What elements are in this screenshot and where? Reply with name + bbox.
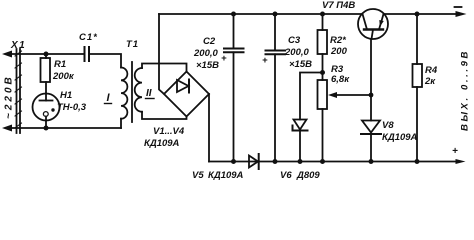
wire: bottom input line with left arrow <box>2 125 121 132</box>
neon lamp H1 <box>33 94 60 121</box>
svg-text:×15В: ×15В <box>289 59 312 70</box>
R3 wiper arrow <box>328 92 371 98</box>
svg-text:200: 200 <box>330 46 348 57</box>
svg-text:200,0: 200,0 <box>193 48 218 59</box>
resistor R1 <box>41 58 51 82</box>
node R4 top <box>415 12 420 17</box>
svg-text:200,0: 200,0 <box>284 47 309 58</box>
svg-text:2к: 2к <box>424 76 436 87</box>
label C2 plus <box>193 36 227 71</box>
wire secondary top to bridge top corner <box>142 64 187 72</box>
wire junction to zener V6 <box>300 73 323 120</box>
diode symbol inside bridge <box>177 80 189 93</box>
diode V8 <box>361 121 381 135</box>
svg-text:+: + <box>452 146 458 157</box>
svg-text:+: + <box>221 53 227 64</box>
transformer T1 primary winding I <box>121 68 127 119</box>
connector X1 plug bar <box>15 49 22 133</box>
node R4 bottom <box>415 159 420 164</box>
wire bridge right corner down to bottom rail <box>208 94 210 162</box>
wire R1 top lead <box>45 54 47 58</box>
svg-text:6,8к: 6,8к <box>331 74 350 85</box>
label V8 KD109A <box>382 120 418 143</box>
svg-text:С2: С2 <box>203 36 216 47</box>
label V1...V4 <box>144 126 185 149</box>
wire bottom rail <box>209 161 457 163</box>
wire V8 to bottom rail <box>370 134 372 162</box>
svg-text:R1: R1 <box>54 59 66 70</box>
wire R2 to R3 <box>322 54 324 80</box>
svg-text:V7 П4В: V7 П4В <box>322 0 355 11</box>
label R1 200k <box>52 59 75 82</box>
svg-text:V8: V8 <box>382 120 394 131</box>
svg-text:I: I <box>107 92 111 104</box>
wire top rail right segment <box>384 13 458 15</box>
output arrow minus <box>456 11 467 17</box>
svg-text:V1...V4: V1...V4 <box>153 126 185 137</box>
label R2* 200 <box>330 35 348 57</box>
output arrow plus <box>456 159 466 164</box>
node C3 top <box>273 12 278 17</box>
label C3 plus <box>262 35 312 70</box>
svg-text:КД109А: КД109А <box>382 132 418 143</box>
capacitor C2 <box>224 14 244 162</box>
label V6 D809 <box>280 170 320 181</box>
svg-text:КД109А: КД109А <box>144 138 180 149</box>
svg-text:С1*: С1* <box>79 32 98 43</box>
wire C1 to transformer primary <box>89 54 121 68</box>
svg-text:V6: V6 <box>280 170 292 180</box>
transistor V7 <box>358 9 388 39</box>
capacitor C1 <box>85 47 90 61</box>
node R3 bottom <box>320 159 325 164</box>
svg-text:II: II <box>146 88 152 99</box>
node C2 top <box>231 12 236 17</box>
wire top rail left segment <box>159 13 363 15</box>
label minus <box>455 6 462 8</box>
svg-text:Т1: Т1 <box>126 39 139 50</box>
svg-text:КД109А: КД109А <box>208 170 244 180</box>
svg-text:R4: R4 <box>425 65 438 76</box>
label H1 TN-0,3 <box>57 90 87 113</box>
transformer T1 secondary winding II <box>135 68 142 112</box>
bridge rectifier V1...V4 diamond <box>164 72 209 117</box>
node V6 bottom <box>298 159 303 164</box>
label V5 KD109A <box>192 170 244 181</box>
node C3 bottom <box>273 159 278 164</box>
node: junction R1 top <box>44 52 49 57</box>
transformer core <box>131 62 133 122</box>
svg-text:Н1: Н1 <box>60 90 72 101</box>
svg-text:ТН-0,3: ТН-0,3 <box>57 102 87 113</box>
wire R4 top lead <box>416 14 418 64</box>
label winding II <box>146 88 155 99</box>
wire bridge left corner up to top rail <box>159 14 164 94</box>
node: junction lamp bottom <box>44 126 49 131</box>
svg-text:ВЫХ. 0...9В: ВЫХ. 0...9В <box>460 49 471 131</box>
svg-text:С3: С3 <box>288 35 301 46</box>
node V8 bottom <box>369 159 374 164</box>
zener diode V6 <box>293 120 308 131</box>
node R2 R3 junction <box>320 70 325 75</box>
capacitor C3 <box>266 14 286 162</box>
wire R2 top lead <box>322 14 324 30</box>
node R2 top <box>320 12 325 17</box>
svg-text:200к: 200к <box>52 71 75 82</box>
node wiper junction <box>369 93 374 98</box>
svg-text:V5: V5 <box>192 170 204 180</box>
variable resistor R3 <box>318 80 328 109</box>
label R4 2k <box>424 65 438 87</box>
diode V5 <box>249 154 259 169</box>
svg-text:R2*: R2* <box>330 35 347 46</box>
svg-text:Д809: Д809 <box>296 170 320 180</box>
wire R4 to bottom rail <box>416 87 418 162</box>
node C2 bottom <box>231 159 236 164</box>
svg-text:+: + <box>262 55 268 66</box>
resistor R2 <box>318 30 328 54</box>
svg-text:~220В: ~220В <box>4 74 15 119</box>
wire: top input line with left arrow <box>2 51 84 58</box>
wire transistor base down <box>370 39 372 121</box>
wire primary bottom lead <box>120 119 122 128</box>
wire secondary bottom to bridge bottom corner <box>142 112 187 119</box>
wire V6 to bottom rail <box>299 131 301 162</box>
label winding I <box>105 92 112 104</box>
wire R1 to lamp <box>45 82 47 94</box>
label R3 6,8k <box>331 64 350 85</box>
wire lamp bottom lead <box>45 121 47 129</box>
svg-text:×15В: ×15В <box>196 60 219 71</box>
svg-text:Х1: Х1 <box>10 40 26 51</box>
wire R3 to bottom rail <box>322 109 324 162</box>
resistor R4 <box>413 64 423 87</box>
